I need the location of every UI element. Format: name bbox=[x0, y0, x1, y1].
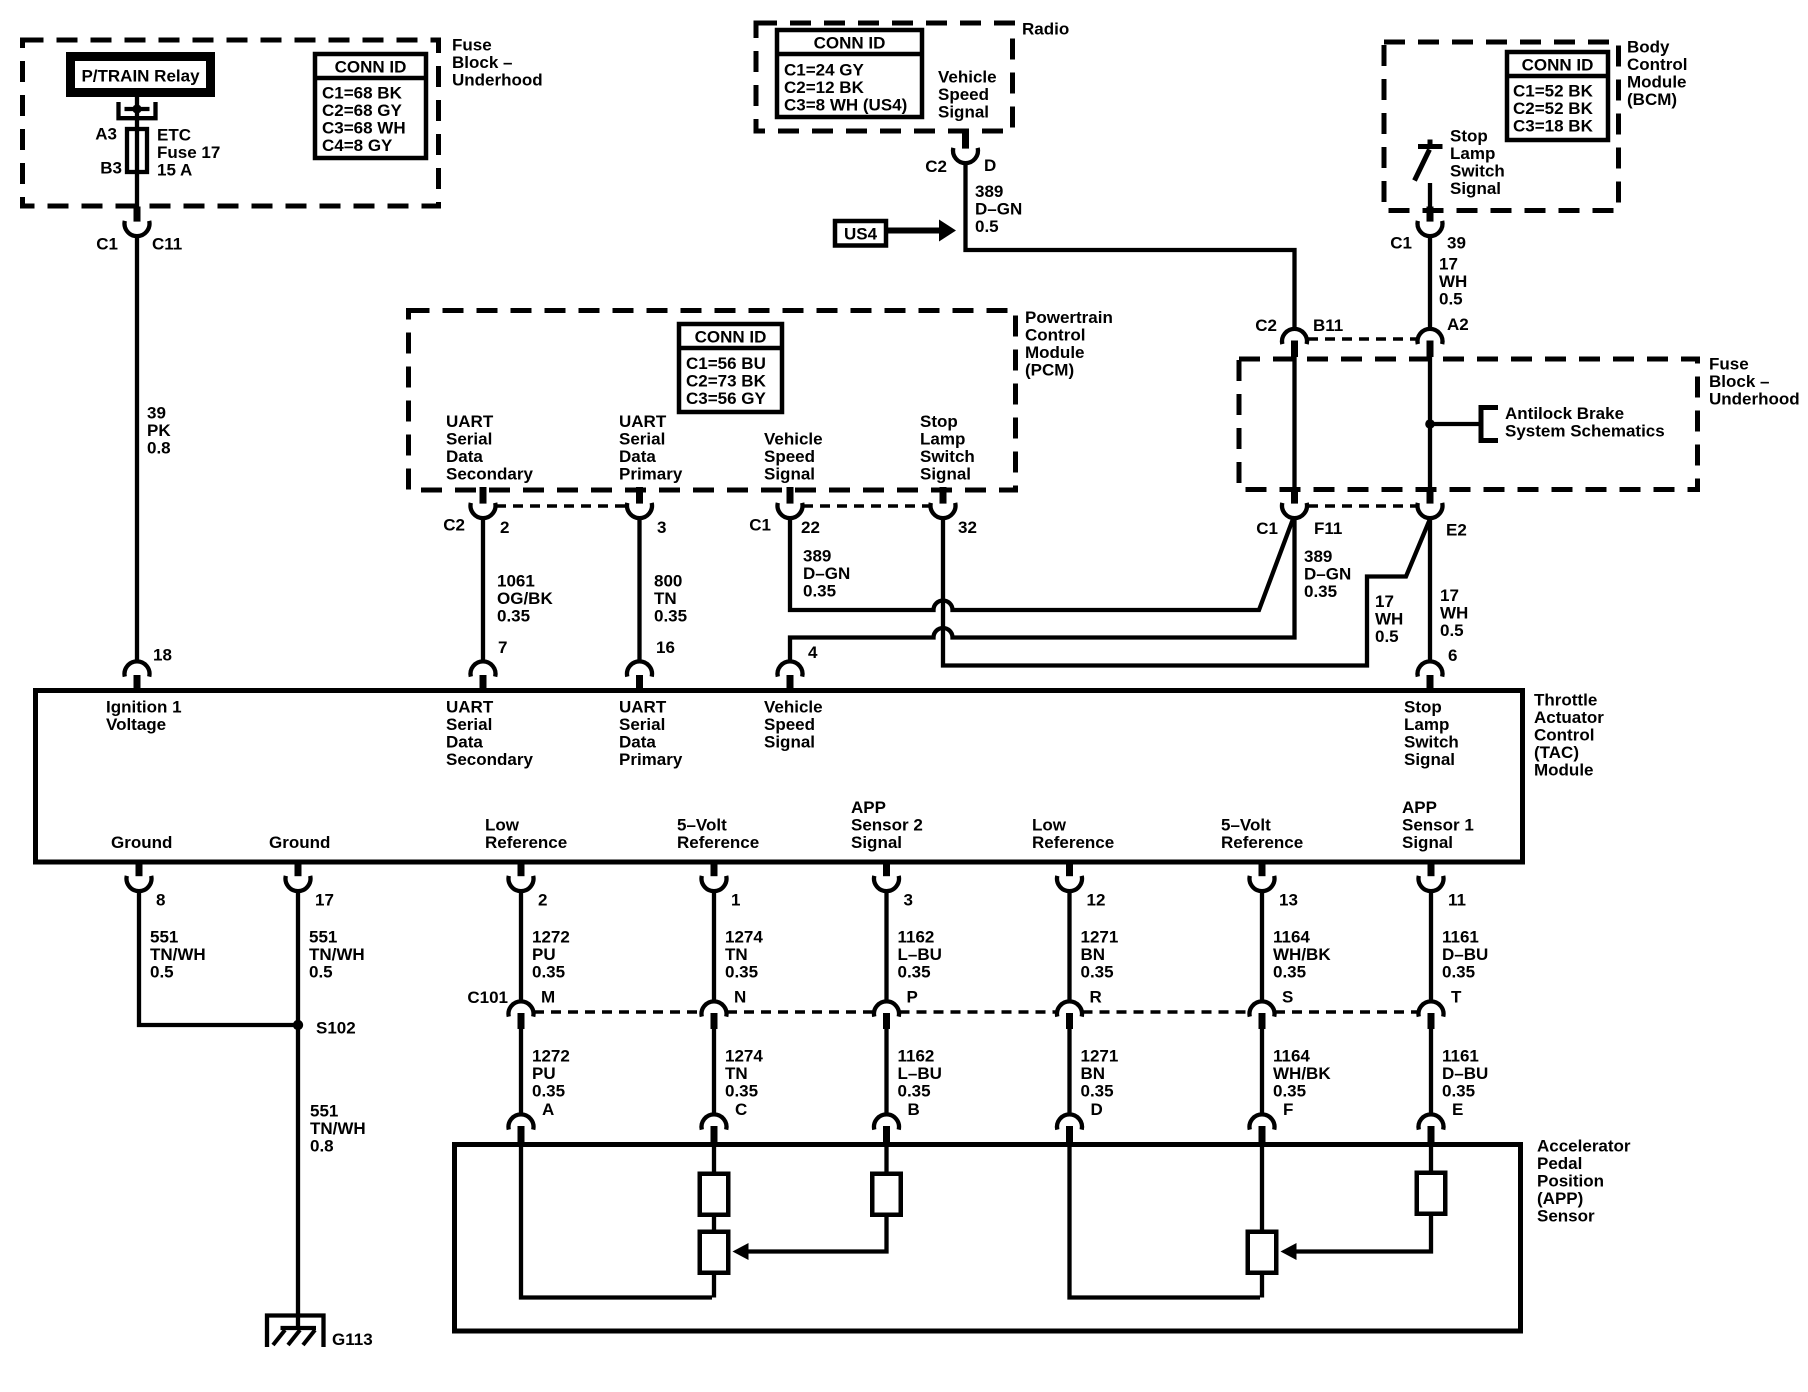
svg-text:551: 551 bbox=[309, 928, 337, 947]
svg-text:TN/WH: TN/WH bbox=[150, 945, 206, 964]
svg-text:PU: PU bbox=[532, 945, 556, 964]
wire APP C into resistor bbox=[712, 1146, 716, 1172]
wire 17 WH 0.5 from BCM to A2 bbox=[1428, 235, 1432, 330]
connector pin 3 at PCM bbox=[636, 487, 643, 504]
svg-text:Stop: Stop bbox=[1404, 698, 1442, 717]
svg-text:0.35: 0.35 bbox=[1081, 1082, 1114, 1101]
svg-text:389: 389 bbox=[803, 547, 831, 566]
svg-text:F11: F11 bbox=[1314, 519, 1342, 538]
resistor R sensor1 signal bbox=[1417, 1173, 1446, 1214]
US4 arrow bbox=[886, 228, 941, 234]
wire 389 D-GN 0.5 from radio to fuse block B11 bbox=[966, 162, 1295, 330]
svg-text:1272: 1272 bbox=[532, 928, 570, 947]
svg-text:7: 7 bbox=[498, 638, 507, 657]
svg-text:32: 32 bbox=[958, 518, 977, 537]
svg-text:17: 17 bbox=[1439, 255, 1458, 274]
svg-text:Data: Data bbox=[446, 733, 483, 752]
connector C1 / 22 at PCM bbox=[787, 487, 794, 504]
svg-text:C1: C1 bbox=[1390, 234, 1412, 253]
svg-text:Reference: Reference bbox=[485, 833, 567, 852]
svg-text:0.35: 0.35 bbox=[1081, 963, 1114, 982]
svg-text:S: S bbox=[1282, 988, 1293, 1007]
svg-text:Secondary: Secondary bbox=[446, 750, 533, 769]
wire from F11 to TAC terminal 4 bbox=[790, 517, 1295, 662]
svg-text:Ground: Ground bbox=[269, 833, 330, 852]
connector dashed line pins 22-32 bbox=[803, 504, 930, 508]
svg-text:Switch: Switch bbox=[920, 447, 975, 466]
svg-text:Switch: Switch bbox=[1404, 733, 1459, 752]
svg-text:D–GN: D–GN bbox=[975, 200, 1022, 219]
svg-text:3: 3 bbox=[904, 891, 913, 910]
terminal 1 connector at TAC bottom bbox=[711, 860, 718, 876]
svg-text:B3: B3 bbox=[100, 159, 122, 178]
terminal 4 connector at TAC bbox=[778, 661, 803, 676]
svg-text:WH/BK: WH/BK bbox=[1273, 945, 1331, 964]
svg-text:D–GN: D–GN bbox=[803, 564, 850, 583]
svg-text:Radio: Radio bbox=[1022, 20, 1069, 39]
wire from C101 to APP terminal B bbox=[884, 1028, 888, 1116]
svg-text:0.35: 0.35 bbox=[1273, 1082, 1306, 1101]
connector A2 bbox=[1417, 329, 1442, 344]
svg-text:1271: 1271 bbox=[1081, 928, 1119, 947]
svg-text:APP: APP bbox=[851, 798, 886, 817]
svg-text:1061: 1061 bbox=[497, 572, 535, 591]
svg-text:11: 11 bbox=[1448, 891, 1466, 910]
svg-text:C: C bbox=[735, 1100, 747, 1119]
svg-text:Reference: Reference bbox=[1221, 833, 1303, 852]
svg-text:Fuse: Fuse bbox=[452, 36, 492, 55]
svg-text:TN: TN bbox=[725, 945, 748, 964]
svg-text:0.35: 0.35 bbox=[1304, 582, 1337, 601]
svg-text:Signal: Signal bbox=[1404, 750, 1455, 769]
svg-text:CONN ID: CONN ID bbox=[695, 328, 767, 347]
svg-text:Signal: Signal bbox=[920, 465, 971, 484]
svg-text:2: 2 bbox=[538, 891, 547, 910]
svg-text:C2: C2 bbox=[925, 157, 947, 176]
svg-text:C1: C1 bbox=[96, 235, 118, 254]
svg-text:1274: 1274 bbox=[725, 1047, 763, 1066]
accelerator pedal position (APP) sensor box bbox=[455, 1145, 1521, 1332]
svg-text:Serial: Serial bbox=[619, 430, 665, 449]
svg-text:Powertrain: Powertrain bbox=[1025, 308, 1113, 327]
C101 dashed line segment bbox=[1083, 1010, 1250, 1014]
svg-text:1: 1 bbox=[731, 891, 740, 910]
svg-text:5–Volt: 5–Volt bbox=[1221, 816, 1271, 835]
svg-text:(APP): (APP) bbox=[1537, 1189, 1583, 1208]
svg-text:C1=24 GY: C1=24 GY bbox=[784, 61, 865, 80]
svg-text:1162: 1162 bbox=[898, 928, 935, 947]
svg-text:Signal: Signal bbox=[938, 103, 989, 122]
svg-text:Throttle: Throttle bbox=[1534, 691, 1597, 710]
svg-text:C3=8 WH (US4): C3=8 WH (US4) bbox=[784, 96, 907, 115]
svg-text:0.35: 0.35 bbox=[898, 1082, 931, 1101]
svg-text:B: B bbox=[908, 1100, 920, 1119]
svg-text:22: 22 bbox=[801, 518, 820, 537]
svg-text:N: N bbox=[734, 988, 746, 1007]
wire from C101 to APP terminal E bbox=[1429, 1028, 1433, 1116]
svg-text:Module: Module bbox=[1627, 73, 1687, 92]
svg-text:System Schematics: System Schematics bbox=[1505, 422, 1665, 441]
C101 dashed line segment bbox=[534, 1010, 701, 1014]
connector C101 terminal T bbox=[1419, 1001, 1444, 1016]
throttle actuator control (TAC) module box bbox=[36, 691, 1523, 863]
svg-text:Signal: Signal bbox=[1450, 179, 1501, 198]
resistor R sensor2 lower bbox=[700, 1232, 729, 1273]
svg-text:C4=8 GY: C4=8 GY bbox=[322, 136, 393, 155]
svg-text:0.5: 0.5 bbox=[150, 963, 174, 982]
svg-text:Secondary: Secondary bbox=[446, 465, 533, 484]
svg-text:Ignition 1: Ignition 1 bbox=[106, 698, 182, 717]
resistor R sensor2 upper bbox=[700, 1174, 729, 1215]
svg-text:P/TRAIN Relay: P/TRAIN Relay bbox=[81, 67, 200, 86]
connector C2 / 2 at PCM bbox=[480, 487, 487, 504]
relay cavity symbol bbox=[119, 102, 156, 118]
svg-text:Switch: Switch bbox=[1450, 162, 1505, 181]
svg-text:0.8: 0.8 bbox=[310, 1137, 334, 1156]
fuse F17 ETC Fuse 17 15 A bbox=[127, 129, 147, 172]
svg-text:Underhood: Underhood bbox=[1709, 390, 1800, 409]
svg-text:Speed: Speed bbox=[764, 447, 815, 466]
svg-text:0.35: 0.35 bbox=[1442, 963, 1475, 982]
svg-text:TN: TN bbox=[654, 589, 677, 608]
svg-text:APP: APP bbox=[1402, 798, 1437, 817]
svg-text:3: 3 bbox=[657, 518, 666, 537]
svg-text:Antilock Brake: Antilock Brake bbox=[1505, 404, 1624, 423]
terminal 11 connector at TAC bottom bbox=[1428, 860, 1435, 876]
svg-text:UART: UART bbox=[619, 698, 667, 717]
svg-text:C3=56 GY: C3=56 GY bbox=[686, 389, 767, 408]
wire APP A to sensor 2 element bbox=[521, 1146, 712, 1298]
wire B11 to F11 inside fuse block bbox=[1292, 356, 1296, 488]
connector terminal B at APP sensor bbox=[874, 1114, 899, 1129]
powertrain control module (PCM) dashed box bbox=[409, 311, 1016, 491]
svg-text:Serial: Serial bbox=[446, 715, 492, 734]
svg-text:BN: BN bbox=[1081, 1064, 1106, 1083]
svg-text:C1=52 BK: C1=52 BK bbox=[1513, 82, 1594, 101]
svg-text:17: 17 bbox=[1440, 586, 1459, 605]
svg-text:Stop: Stop bbox=[1450, 127, 1488, 146]
svg-text:Reference: Reference bbox=[1032, 833, 1114, 852]
svg-text:D: D bbox=[984, 156, 996, 175]
wire from C101 to APP terminal A bbox=[519, 1028, 523, 1116]
C101 dashed line segment bbox=[727, 1010, 874, 1014]
relay K P/TRAIN Relay box bbox=[66, 52, 215, 97]
svg-text:Data: Data bbox=[619, 733, 656, 752]
connector terminal E at APP sensor bbox=[1419, 1114, 1444, 1129]
svg-text:0.8: 0.8 bbox=[147, 439, 171, 458]
svg-text:18: 18 bbox=[153, 646, 172, 665]
svg-text:13: 13 bbox=[1279, 891, 1298, 910]
wires from TAC pins to C101 bbox=[519, 890, 523, 1003]
ground G113 symbol bbox=[267, 1316, 324, 1348]
svg-text:15 A: 15 A bbox=[157, 161, 192, 180]
fuse block - underhood (right) dashed box bbox=[1239, 359, 1698, 490]
svg-text:A: A bbox=[542, 1100, 554, 1119]
svg-text:(PCM): (PCM) bbox=[1025, 361, 1074, 380]
svg-text:OG/BK: OG/BK bbox=[497, 589, 553, 608]
svg-text:0.35: 0.35 bbox=[1273, 963, 1306, 982]
svg-text:16: 16 bbox=[656, 638, 675, 657]
svg-text:Reference: Reference bbox=[677, 833, 759, 852]
svg-text:BN: BN bbox=[1081, 945, 1106, 964]
connector C2 / B11 bbox=[1282, 329, 1307, 344]
svg-text:CONN ID: CONN ID bbox=[814, 34, 886, 53]
svg-text:Signal: Signal bbox=[851, 833, 902, 852]
svg-text:1271: 1271 bbox=[1081, 1047, 1119, 1066]
svg-text:Fuse: Fuse bbox=[1709, 355, 1749, 374]
svg-text:Accelerator: Accelerator bbox=[1537, 1137, 1631, 1156]
connector row dashed line B11-A2 bbox=[1308, 337, 1417, 341]
svg-text:C1=56 BU: C1=56 BU bbox=[686, 354, 766, 373]
svg-text:8: 8 bbox=[156, 891, 165, 910]
svg-text:0.35: 0.35 bbox=[803, 582, 836, 601]
wire 800 TN 0.35 (PCM 3 to TAC 16) bbox=[637, 517, 641, 662]
svg-text:0.5: 0.5 bbox=[1439, 290, 1463, 309]
wiper arrow for APP sensor 1 bbox=[1296, 1216, 1431, 1252]
svg-text:Fuse 17: Fuse 17 bbox=[157, 143, 220, 162]
svg-text:TN/WH: TN/WH bbox=[309, 945, 365, 964]
svg-text:C2=68 GY: C2=68 GY bbox=[322, 101, 403, 120]
svg-text:P: P bbox=[907, 988, 918, 1007]
connector dashed line pins 2-3 bbox=[496, 504, 627, 508]
wire 1061 OG/BK 0.35 (PCM 2 to TAC 7) bbox=[481, 517, 485, 662]
svg-text:Control: Control bbox=[1534, 726, 1594, 745]
svg-text:L–BU: L–BU bbox=[898, 945, 942, 964]
svg-text:C11: C11 bbox=[152, 235, 182, 254]
wire from C101 to APP terminal C bbox=[712, 1028, 716, 1116]
svg-text:Signal: Signal bbox=[764, 733, 815, 752]
svg-text:C3=18 BK: C3=18 BK bbox=[1513, 117, 1594, 136]
svg-text:0.5: 0.5 bbox=[975, 217, 999, 236]
svg-text:WH: WH bbox=[1440, 604, 1468, 623]
svg-text:D–GN: D–GN bbox=[1304, 565, 1351, 584]
svg-text:389: 389 bbox=[975, 182, 1003, 201]
svg-text:Body: Body bbox=[1627, 38, 1670, 57]
svg-text:389: 389 bbox=[1304, 547, 1332, 566]
svg-text:1161: 1161 bbox=[1442, 928, 1479, 947]
svg-text:C2=12 BK: C2=12 BK bbox=[784, 78, 865, 97]
svg-text:US4: US4 bbox=[844, 225, 878, 244]
wire from TAC 8 to splice S102 bbox=[139, 890, 296, 1025]
svg-text:4: 4 bbox=[808, 643, 818, 662]
connector C1 / 39 at BCM bbox=[1427, 207, 1434, 222]
terminal 18 connector at TAC bbox=[125, 661, 150, 676]
CONN ID table (radio) bbox=[777, 30, 922, 117]
svg-text:C1=68 BK: C1=68 BK bbox=[322, 84, 403, 103]
svg-text:Low: Low bbox=[485, 816, 520, 835]
wire between sensor 2 resistors bbox=[712, 1217, 716, 1230]
svg-text:0.35: 0.35 bbox=[497, 607, 530, 626]
svg-text:C2: C2 bbox=[1255, 316, 1277, 335]
svg-text:Block –: Block – bbox=[1709, 372, 1769, 391]
svg-text:551: 551 bbox=[150, 928, 178, 947]
svg-text:Lamp: Lamp bbox=[920, 430, 965, 449]
svg-text:E: E bbox=[1452, 1100, 1463, 1119]
svg-text:0.35: 0.35 bbox=[898, 963, 931, 982]
svg-text:UART: UART bbox=[446, 412, 494, 431]
svg-text:WH: WH bbox=[1375, 610, 1403, 629]
svg-text:M: M bbox=[541, 988, 555, 1007]
terminal 2 connector at TAC bottom bbox=[518, 860, 525, 876]
svg-text:L–BU: L–BU bbox=[898, 1064, 942, 1083]
connector C1 / F11 bbox=[1291, 487, 1298, 504]
svg-text:Module: Module bbox=[1025, 343, 1085, 362]
connector C101 terminal R bbox=[1057, 1001, 1082, 1016]
wire from TAC 17 to ground G113 bbox=[296, 890, 300, 1326]
CONN ID table (fuse block left) bbox=[315, 54, 426, 158]
svg-text:800: 800 bbox=[654, 572, 682, 591]
svg-text:0.35: 0.35 bbox=[1442, 1082, 1475, 1101]
svg-text:ETC: ETC bbox=[157, 126, 191, 145]
svg-text:Data: Data bbox=[446, 447, 483, 466]
svg-text:39: 39 bbox=[1447, 234, 1466, 253]
wire 39 PK 0.8 (ignition feed) bbox=[135, 235, 139, 662]
wire A2 to E2 inside fuse block bbox=[1428, 356, 1432, 488]
connector C2 / D at radio bbox=[962, 129, 969, 149]
svg-text:Actuator: Actuator bbox=[1534, 708, 1604, 727]
svg-text:WH/BK: WH/BK bbox=[1273, 1064, 1331, 1083]
svg-text:B11: B11 bbox=[1313, 316, 1343, 335]
svg-text:C2=73 BK: C2=73 BK bbox=[686, 372, 767, 391]
connector terminal F at APP sensor bbox=[1250, 1114, 1275, 1129]
CONN ID table (PCM) bbox=[679, 324, 782, 412]
terminal 7 connector at TAC bbox=[470, 661, 495, 676]
svg-text:551: 551 bbox=[310, 1102, 338, 1121]
US4 option box bbox=[835, 221, 886, 246]
svg-text:C3=68 WH: C3=68 WH bbox=[322, 119, 406, 138]
svg-text:17: 17 bbox=[315, 891, 334, 910]
wire APP B to wiper bbox=[884, 1146, 888, 1172]
connector C101 terminal S bbox=[1250, 1001, 1275, 1016]
svg-text:1272: 1272 bbox=[532, 1047, 570, 1066]
svg-text:17: 17 bbox=[1375, 592, 1394, 611]
wire E2 to terminal 6 bbox=[1428, 517, 1432, 662]
wire 389 D-GN 0.35 (PCM 22 to F11) bbox=[790, 517, 1293, 610]
svg-text:(TAC): (TAC) bbox=[1534, 743, 1579, 762]
svg-text:0.35: 0.35 bbox=[725, 1082, 758, 1101]
svg-text:D–BU: D–BU bbox=[1442, 945, 1488, 964]
connector E2 bbox=[1427, 487, 1434, 504]
wire from P/TRAIN relay to fuse bbox=[135, 97, 139, 129]
svg-text:UART: UART bbox=[446, 698, 494, 717]
svg-text:Primary: Primary bbox=[619, 465, 683, 484]
svg-text:Speed: Speed bbox=[938, 85, 989, 104]
terminal 6 connector at TAC bbox=[1417, 661, 1442, 676]
svg-text:Sensor: Sensor bbox=[1537, 1207, 1595, 1226]
wire below sensor 1 resistor bbox=[1260, 1275, 1264, 1298]
wire from C101 to APP terminal F bbox=[1260, 1028, 1264, 1116]
svg-text:1161: 1161 bbox=[1442, 1047, 1479, 1066]
svg-text:Signal: Signal bbox=[1402, 833, 1453, 852]
svg-text:12: 12 bbox=[1087, 891, 1106, 910]
svg-text:Stop: Stop bbox=[920, 412, 958, 431]
svg-text:TN: TN bbox=[725, 1064, 748, 1083]
svg-text:Vehicle: Vehicle bbox=[938, 68, 997, 87]
svg-text:Control: Control bbox=[1627, 55, 1687, 74]
svg-text:0.5: 0.5 bbox=[309, 963, 333, 982]
svg-text:1164: 1164 bbox=[1273, 1047, 1310, 1066]
svg-text:C2=52 BK: C2=52 BK bbox=[1513, 99, 1594, 118]
svg-text:0.5: 0.5 bbox=[1375, 627, 1399, 646]
svg-text:A3: A3 bbox=[95, 125, 117, 144]
wire APP D to sensor 1 element bbox=[1070, 1146, 1261, 1298]
svg-text:Low: Low bbox=[1032, 816, 1067, 835]
svg-text:F: F bbox=[1283, 1100, 1293, 1119]
svg-text:Speed: Speed bbox=[764, 715, 815, 734]
svg-text:0.35: 0.35 bbox=[532, 963, 565, 982]
svg-text:Serial: Serial bbox=[446, 430, 492, 449]
svg-text:6: 6 bbox=[1448, 646, 1457, 665]
svg-text:Primary: Primary bbox=[619, 750, 683, 769]
svg-text:Vehicle: Vehicle bbox=[764, 698, 823, 717]
svg-text:CONN ID: CONN ID bbox=[335, 58, 407, 77]
svg-text:0.5: 0.5 bbox=[1440, 621, 1464, 640]
junction to antilock brake schematics bbox=[1425, 419, 1435, 429]
stop lamp switch symbol in BCM bbox=[1418, 144, 1443, 149]
svg-text:5–Volt: 5–Volt bbox=[677, 816, 727, 835]
svg-text:G113: G113 bbox=[332, 1330, 373, 1349]
fuse block - underhood (left) dashed box bbox=[23, 40, 439, 206]
svg-text:C2: C2 bbox=[443, 516, 465, 535]
wire from switch to BCM connector bbox=[1428, 183, 1432, 207]
terminal 3 connector at TAC bottom bbox=[883, 860, 890, 876]
connector C1 / C11 bbox=[134, 207, 141, 222]
terminal 13 connector at TAC bottom bbox=[1259, 860, 1266, 876]
svg-text:WH: WH bbox=[1439, 272, 1467, 291]
wire from C101 to APP terminal D bbox=[1067, 1028, 1071, 1116]
C101 dashed line segment bbox=[900, 1010, 1057, 1014]
svg-text:0.35: 0.35 bbox=[532, 1082, 565, 1101]
svg-text:Vehicle: Vehicle bbox=[764, 430, 823, 449]
svg-text:1162: 1162 bbox=[898, 1047, 935, 1066]
svg-text:D: D bbox=[1091, 1100, 1103, 1119]
svg-text:Signal: Signal bbox=[764, 465, 815, 484]
svg-text:Underhood: Underhood bbox=[452, 71, 543, 90]
resistor R sensor1 lower bbox=[1248, 1232, 1277, 1273]
svg-text:Sensor 1: Sensor 1 bbox=[1402, 816, 1474, 835]
svg-text:Sensor 2: Sensor 2 bbox=[851, 816, 923, 835]
svg-text:TN/WH: TN/WH bbox=[310, 1119, 366, 1138]
svg-text:Voltage: Voltage bbox=[106, 715, 166, 734]
wire below sensor 2 resistors bbox=[712, 1275, 716, 1298]
svg-text:C1: C1 bbox=[749, 516, 771, 535]
svg-text:R: R bbox=[1090, 988, 1102, 1007]
svg-text:Position: Position bbox=[1537, 1172, 1604, 1191]
connector terminal A at APP sensor bbox=[509, 1114, 534, 1129]
connector row dashed line F11-E2 bbox=[1308, 504, 1417, 508]
svg-text:1274: 1274 bbox=[725, 928, 763, 947]
connector C101 terminal M bbox=[509, 1001, 534, 1016]
svg-text:CONN ID: CONN ID bbox=[1522, 56, 1594, 75]
svg-text:0.35: 0.35 bbox=[725, 963, 758, 982]
resistor R sensor2 signal bbox=[872, 1174, 901, 1215]
svg-text:Ground: Ground bbox=[111, 833, 172, 852]
svg-text:Lamp: Lamp bbox=[1404, 715, 1449, 734]
terminal 8 connector at TAC bottom bbox=[136, 860, 143, 876]
svg-text:PK: PK bbox=[147, 421, 171, 440]
wire 17 WH 0.5 (PCM 32 to E2) bbox=[943, 517, 1430, 666]
svg-text:A2: A2 bbox=[1447, 315, 1469, 334]
svg-text:Data: Data bbox=[619, 447, 656, 466]
svg-text:T: T bbox=[1451, 988, 1462, 1007]
connector C101 terminal N bbox=[702, 1001, 727, 1016]
svg-text:39: 39 bbox=[147, 404, 166, 423]
connector pin 32 at PCM bbox=[940, 487, 947, 504]
svg-text:UART: UART bbox=[619, 412, 667, 431]
svg-text:(BCM): (BCM) bbox=[1627, 90, 1677, 109]
svg-text:Control: Control bbox=[1025, 326, 1085, 345]
connector terminal D at APP sensor bbox=[1057, 1114, 1082, 1129]
